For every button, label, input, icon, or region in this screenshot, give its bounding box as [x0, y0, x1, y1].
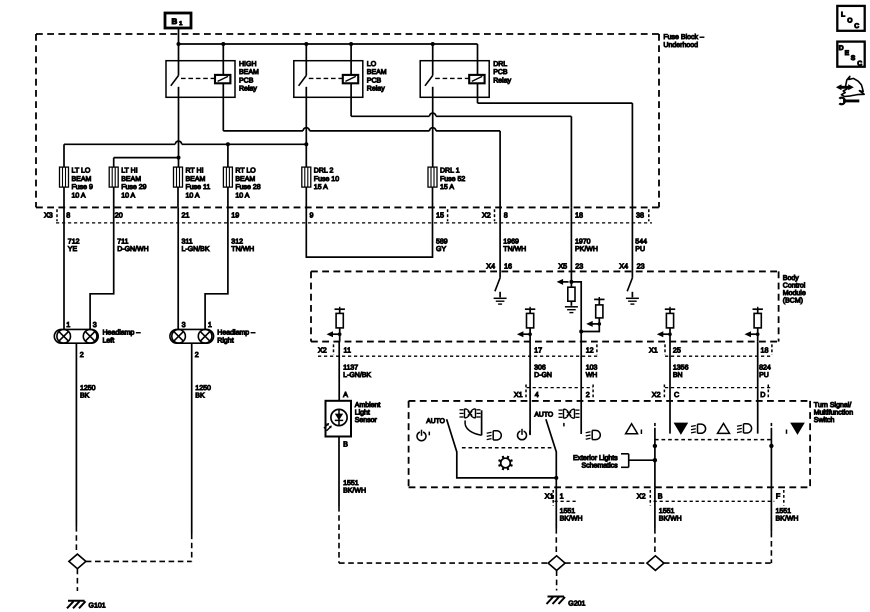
svg-text:BK/WH: BK/WH: [343, 487, 366, 495]
svg-text:1969: 1969: [503, 239, 519, 246]
svg-text:8: 8: [504, 210, 508, 219]
svg-text:BEAM: BEAM: [367, 69, 387, 76]
svg-text:PU: PU: [759, 372, 769, 379]
svg-text:2: 2: [80, 350, 84, 359]
svg-text:1: 1: [560, 492, 564, 501]
svg-text:1970: 1970: [575, 239, 591, 246]
svg-text:DRL: DRL: [493, 61, 507, 68]
svg-text:38: 38: [636, 210, 644, 219]
svg-text:Switch: Switch: [814, 416, 835, 424]
svg-text:A: A: [343, 390, 348, 399]
svg-text:544: 544: [635, 239, 647, 246]
svg-text:824: 824: [759, 365, 771, 372]
svg-text:X2: X2: [652, 390, 661, 399]
svg-text:BEAM: BEAM: [235, 176, 255, 183]
svg-text:BEAM: BEAM: [72, 176, 92, 183]
svg-text:Fuse 9: Fuse 9: [72, 184, 94, 191]
svg-text:Control: Control: [783, 282, 806, 290]
svg-text:306: 306: [534, 365, 546, 372]
svg-text:Fuse Block –: Fuse Block –: [663, 33, 704, 41]
svg-text:PK/WH: PK/WH: [575, 245, 598, 253]
svg-text:PU: PU: [635, 246, 645, 253]
svg-text:8: 8: [66, 210, 70, 219]
svg-text:103: 103: [586, 365, 598, 372]
svg-text:Sensor: Sensor: [355, 417, 378, 424]
svg-text:15 A: 15 A: [440, 184, 454, 191]
svg-text:X1: X1: [514, 390, 523, 399]
svg-text:LO: LO: [367, 61, 377, 68]
svg-text:311: 311: [182, 239, 193, 246]
svg-text:23: 23: [637, 261, 645, 270]
svg-text:L-GN/BK: L-GN/BK: [343, 371, 371, 379]
svg-text:X2: X2: [318, 345, 327, 354]
svg-text:DRL 2: DRL 2: [314, 168, 334, 175]
svg-text:18: 18: [761, 345, 769, 354]
svg-text:Underhood: Underhood: [663, 41, 698, 49]
svg-text:1: 1: [179, 21, 182, 27]
svg-text:9: 9: [310, 210, 314, 219]
svg-text:312: 312: [231, 239, 243, 246]
svg-text:D: D: [839, 45, 844, 52]
svg-text:D-GN/WH: D-GN/WH: [117, 245, 149, 253]
svg-text:Multifunction: Multifunction: [814, 409, 853, 417]
svg-text:AUTO: AUTO: [426, 418, 445, 425]
svg-text:21: 21: [182, 210, 190, 219]
svg-text:10 A: 10 A: [121, 193, 135, 200]
svg-text:3: 3: [182, 320, 186, 329]
svg-text:BK/WH: BK/WH: [776, 515, 799, 523]
svg-text:F: F: [776, 492, 781, 501]
svg-text:Schematics: Schematics: [582, 461, 619, 469]
svg-text:11: 11: [344, 345, 351, 354]
svg-text:1250: 1250: [195, 385, 211, 392]
svg-text:Relay: Relay: [367, 85, 385, 93]
svg-text:S: S: [851, 55, 856, 62]
svg-text:TN/WH: TN/WH: [503, 245, 526, 253]
svg-text:B: B: [658, 492, 663, 501]
svg-text:1551: 1551: [560, 508, 576, 515]
svg-text:RT HI: RT HI: [186, 168, 204, 175]
svg-text:X4: X4: [619, 261, 628, 270]
svg-text:G101: G101: [89, 603, 106, 610]
svg-text:L: L: [841, 12, 845, 19]
svg-text:16: 16: [504, 261, 512, 270]
svg-text:Module: Module: [783, 289, 806, 297]
svg-text:10 A: 10 A: [186, 193, 200, 200]
svg-text:BN: BN: [673, 372, 683, 379]
svg-text:X3: X3: [44, 210, 53, 219]
svg-text:(BCM): (BCM): [783, 297, 803, 305]
svg-text:WH: WH: [586, 372, 598, 379]
svg-text:4: 4: [535, 390, 539, 399]
svg-text:23: 23: [575, 261, 583, 270]
svg-text:B: B: [172, 17, 178, 26]
svg-text:D: D: [760, 390, 765, 399]
svg-text:BEAM: BEAM: [121, 176, 141, 183]
svg-text:2: 2: [586, 390, 590, 399]
svg-text:Body: Body: [783, 274, 799, 282]
svg-text:1137: 1137: [343, 365, 358, 372]
svg-text:C: C: [857, 60, 862, 67]
svg-text:Fuse 29: Fuse 29: [121, 184, 146, 191]
svg-text:17: 17: [534, 345, 542, 354]
svg-text:X4: X4: [486, 261, 495, 270]
svg-text:1551: 1551: [659, 508, 675, 515]
svg-text:Light: Light: [355, 408, 370, 416]
svg-text:712: 712: [68, 239, 80, 246]
svg-text:10 A: 10 A: [72, 193, 86, 200]
svg-text:BK: BK: [80, 393, 90, 400]
svg-text:DRL 1: DRL 1: [440, 168, 460, 175]
svg-text:18: 18: [575, 210, 583, 219]
svg-text:Fuse 10: Fuse 10: [314, 176, 339, 183]
svg-text:20: 20: [115, 210, 123, 219]
svg-text:BEAM: BEAM: [186, 176, 206, 183]
svg-text:B: B: [343, 439, 348, 448]
svg-text:15 A: 15 A: [314, 184, 328, 191]
svg-text:589: 589: [436, 239, 448, 246]
svg-text:1551: 1551: [343, 480, 359, 487]
svg-text:D-GN: D-GN: [534, 372, 552, 379]
svg-text:LT HI: LT HI: [121, 168, 138, 175]
svg-text:PCB: PCB: [239, 77, 254, 84]
svg-text:Headlamp –: Headlamp –: [103, 329, 141, 337]
svg-text:GY: GY: [436, 246, 446, 253]
svg-text:1551: 1551: [776, 508, 792, 515]
svg-text:LT LO: LT LO: [72, 168, 91, 175]
svg-text:Exterior Lights: Exterior Lights: [573, 454, 618, 462]
svg-text:Relay: Relay: [239, 85, 257, 93]
svg-text:X1: X1: [545, 492, 554, 501]
svg-text:BEAM: BEAM: [239, 69, 259, 76]
svg-text:C: C: [674, 390, 679, 399]
svg-text:Headlamp –: Headlamp –: [217, 329, 255, 337]
svg-text:Right: Right: [217, 336, 233, 344]
svg-text:Left: Left: [103, 336, 115, 344]
svg-text:711: 711: [117, 239, 128, 246]
svg-text:Relay: Relay: [493, 76, 511, 84]
svg-text:BK/WH: BK/WH: [560, 515, 583, 523]
svg-text:RT LO: RT LO: [235, 168, 256, 175]
svg-text:TN/WH: TN/WH: [231, 245, 254, 253]
svg-text:19: 19: [231, 210, 239, 219]
svg-text:HIGH: HIGH: [239, 61, 257, 68]
svg-text:Ambient: Ambient: [355, 401, 381, 409]
svg-text:X1: X1: [649, 345, 658, 354]
svg-text:15: 15: [436, 210, 444, 219]
svg-text:3: 3: [93, 320, 97, 329]
svg-text:G201: G201: [568, 600, 585, 607]
svg-text:Turn Signal/: Turn Signal/: [814, 401, 852, 409]
svg-text:PCB: PCB: [493, 69, 508, 76]
svg-text:E: E: [845, 50, 850, 57]
svg-text:Fuse 11: Fuse 11: [186, 184, 211, 191]
svg-text:X2: X2: [482, 210, 491, 219]
svg-text:12: 12: [586, 345, 594, 354]
svg-text:BK/WH: BK/WH: [659, 515, 682, 523]
svg-text:1356: 1356: [673, 365, 689, 372]
svg-text:X5: X5: [558, 261, 567, 270]
svg-text:Fuse 52: Fuse 52: [440, 176, 465, 183]
svg-text:C: C: [854, 23, 859, 30]
svg-text:AUTO: AUTO: [534, 412, 553, 419]
svg-text:1: 1: [208, 320, 212, 329]
svg-text:O: O: [847, 17, 852, 24]
svg-text:1: 1: [66, 320, 70, 329]
svg-text:10 A: 10 A: [235, 193, 249, 200]
svg-text:X2: X2: [637, 492, 646, 501]
svg-text:PCB: PCB: [367, 77, 382, 84]
svg-text:BK: BK: [195, 393, 205, 400]
svg-text:YE: YE: [68, 246, 78, 253]
svg-text:2: 2: [195, 350, 199, 359]
svg-text:L-GN/BK: L-GN/BK: [182, 245, 210, 253]
svg-text:1250: 1250: [80, 385, 96, 392]
svg-text:Fuse 28: Fuse 28: [235, 184, 260, 191]
svg-text:25: 25: [673, 345, 681, 354]
